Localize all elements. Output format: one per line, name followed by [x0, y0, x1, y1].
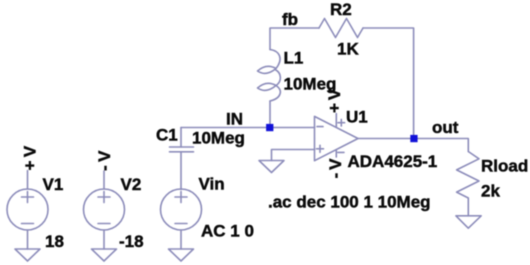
capacitor C1 [180, 128, 182, 148]
op-amp V- pin [335, 150, 337, 157]
svg-text:IN: IN [226, 110, 243, 129]
svg-text:fb: fb [282, 10, 298, 29]
inductor L1 [270, 50, 280, 69]
svg-text:10Meg: 10Meg [192, 128, 245, 147]
op-amp inverting input marker [317, 126, 323, 128]
svg-text:V2: V2 [121, 175, 142, 194]
svg-text:-V: -V [95, 147, 114, 171]
ground (op-amp) [259, 161, 284, 173]
voltage source V1 [27, 171, 29, 190]
svg-text:2k: 2k [481, 181, 500, 200]
svg-text:out: out [432, 118, 459, 137]
wire L1 to IN node [269, 101, 271, 128]
voltage source Vin [161, 189, 202, 230]
wire Vin to ground [180, 230, 182, 249]
wire non-inverting input to ground [272, 150, 315, 161]
svg-text:+V: +V [325, 86, 344, 113]
node out junction [410, 135, 417, 142]
wire R2 to out (right vertical) [363, 28, 414, 139]
svg-text:Rload: Rload [481, 156, 528, 175]
wire op-amp output to out node [358, 139, 468, 152]
svg-text:-18: -18 [119, 232, 144, 251]
svg-text:+V: +V [21, 142, 40, 170]
ground (V1) [15, 249, 40, 261]
op-amp U1 triangle [315, 116, 359, 160]
wire IN (C1 to op-amp inverting input) [181, 127, 315, 129]
ground (V2) [92, 249, 117, 261]
svg-text:L1: L1 [284, 49, 304, 68]
svg-text:AC 1 0: AC 1 0 [201, 221, 254, 240]
svg-text:.ac dec 100 1 10Meg: .ac dec 100 1 10Meg [268, 193, 431, 212]
voltage source V2 [103, 171, 105, 189]
resistor R2 [319, 19, 363, 38]
svg-text:Vin: Vin [199, 174, 225, 193]
svg-text:18: 18 [45, 232, 64, 251]
op-amp non-inverting input marker [317, 145, 324, 152]
op-amp V+ pin [335, 114, 337, 127]
svg-text:C1: C1 [156, 126, 178, 145]
svg-text:-V: -V [326, 156, 345, 179]
resistor Rload [457, 152, 479, 199]
svg-text:ADA4625-1: ADA4625-1 [348, 152, 438, 171]
svg-text:V1: V1 [43, 175, 64, 194]
node IN junction [266, 124, 273, 131]
svg-text:1K: 1K [337, 39, 359, 58]
wire fb top-left corner [270, 28, 319, 50]
svg-text:R2: R2 [330, 0, 352, 19]
svg-text:U1: U1 [346, 107, 368, 126]
ground (Rload) [456, 216, 481, 228]
ground (Vin) [169, 249, 194, 261]
